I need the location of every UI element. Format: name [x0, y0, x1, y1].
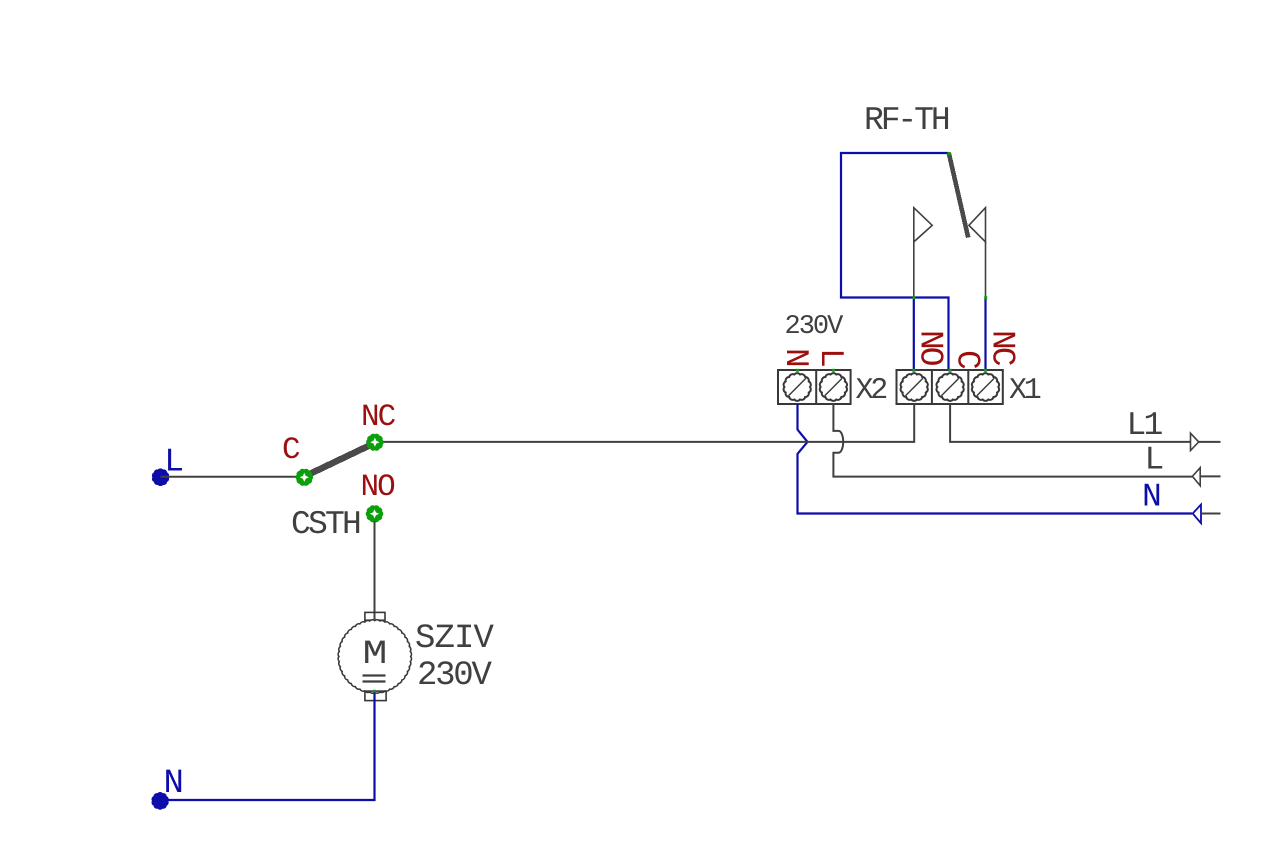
pin dot left contact	[913, 296, 916, 299]
wire: L node to switch common	[161, 476, 305, 478]
relay RF-TH right contact (to NC)	[969, 208, 986, 298]
arrow L1 (right)	[1191, 433, 1199, 450]
svg-text:L1: L1	[1127, 407, 1163, 444]
terminal block X1	[897, 370, 1003, 404]
svg-text:RF-TH: RF-TH	[864, 102, 949, 139]
pin dot motor top	[373, 619, 376, 622]
arrow N (left, blue)	[1193, 505, 1201, 524]
motor M1 body	[338, 620, 411, 693]
svg-text:NC: NC	[361, 400, 396, 435]
wire stub after N arrow	[1201, 513, 1221, 515]
wire: X2:2 line drop with arc hop, then L bus	[833, 404, 1192, 477]
wire: X1:1 NO drop joining L1 line	[381, 404, 914, 442]
wire: blue drop to X1 NO terminal	[913, 298, 915, 371]
terminal block X2	[778, 370, 851, 404]
pin dot right contact	[984, 296, 987, 299]
motor M1 bottom terminal	[365, 691, 386, 701]
pin dot blade top	[948, 152, 951, 155]
relay RF-TH left contact (to NO)	[914, 208, 932, 298]
svg-text:X2: X2	[856, 374, 887, 408]
pin dot X2:2 top	[832, 369, 835, 372]
pin dot motor bottom	[373, 690, 376, 693]
relay RF-TH blade	[949, 153, 968, 238]
contact NC (green)	[367, 434, 383, 450]
svg-text:NO: NO	[912, 330, 949, 366]
motor M1 top terminal	[365, 612, 385, 620]
svg-text:L: L	[812, 348, 849, 368]
node N dot	[152, 793, 168, 809]
svg-text:M: M	[363, 636, 388, 674]
wire: NO contact down to motor	[374, 521, 376, 620]
svg-text:N: N	[1142, 479, 1162, 516]
contact NO (green)	[366, 506, 382, 522]
wire: X1:2 C drop then L1 bus to arrow	[950, 404, 1199, 442]
screw X1:2	[936, 373, 963, 401]
screw X1:3	[972, 373, 999, 401]
wire: X2:1 neutral drop with chevron jump, then N bus	[798, 404, 1193, 514]
pin dot X1:2 top	[949, 369, 952, 372]
contact C (green)	[296, 469, 312, 485]
arrow L (left)	[1192, 468, 1200, 486]
wire: blue drop to X1 NC terminal	[984, 298, 986, 371]
wire: motor bottom to N node (blue)	[161, 693, 375, 801]
svg-text:NO: NO	[361, 470, 396, 505]
svg-text:C: C	[282, 433, 301, 468]
screw X2:1	[784, 373, 811, 401]
screw X1:1	[901, 373, 928, 401]
svg-text:X1: X1	[1009, 374, 1041, 408]
svg-text:SZIV: SZIV	[415, 620, 495, 658]
svg-text:L: L	[1145, 442, 1165, 479]
svg-text:N: N	[777, 348, 814, 368]
switch CSTH blade (C to NC)	[307, 444, 374, 476]
wire: RF-TH blue loop (blade pin to contacts / C terminal)	[841, 153, 949, 370]
wire stub after L1 arrow	[1199, 441, 1221, 443]
pin dot X1:3 top	[984, 369, 987, 372]
svg-text:230V: 230V	[417, 657, 492, 695]
node L dot	[153, 469, 169, 485]
svg-text:NC: NC	[984, 330, 1021, 366]
svg-text:230V: 230V	[785, 312, 845, 342]
pin dot X1:1 top	[912, 369, 915, 372]
svg-text:CSTH: CSTH	[291, 506, 360, 543]
svg-text:C: C	[949, 350, 986, 370]
screw X2:2	[820, 373, 847, 401]
wire stub after L arrow	[1200, 475, 1220, 477]
svg-text:N: N	[164, 765, 184, 803]
pin dot X2:1 top	[796, 369, 799, 372]
motor = lines	[363, 674, 386, 676]
